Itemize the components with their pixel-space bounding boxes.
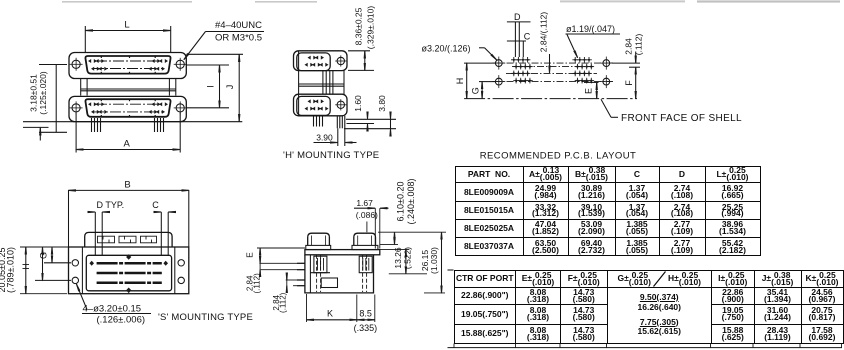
svg-text:8.36±0.25: 8.36±0.25	[354, 7, 364, 45]
svg-text:G: G	[471, 87, 481, 94]
svg-text:(.125±.020): (.125±.020)	[38, 71, 48, 115]
svg-text:ø3.20/(.126): ø3.20/(.126)	[422, 44, 471, 54]
svg-text:(.240±.008): (.240±.008)	[406, 179, 416, 225]
svg-text:G: G	[38, 252, 48, 259]
svg-text:4–ø3.20±0.15: 4–ø3.20±0.15	[83, 304, 142, 315]
svg-text:C: C	[152, 200, 159, 210]
svg-text:(.086): (.086)	[356, 210, 378, 220]
svg-text:'S' MOUNTING TYPE: 'S' MOUNTING TYPE	[158, 312, 253, 323]
svg-text:3.90: 3.90	[316, 133, 333, 143]
svg-text:H: H	[455, 78, 465, 85]
svg-text:L: L	[124, 20, 129, 31]
svg-text:(.335): (.335)	[354, 323, 378, 333]
svg-text:(.329±.010): (.329±.010)	[365, 6, 375, 50]
svg-text:I: I	[206, 85, 216, 88]
svg-text:(.112): (.112)	[633, 34, 643, 56]
svg-text:2.84/(.112): 2.84/(.112)	[539, 12, 549, 53]
svg-text:(.522): (.522)	[403, 247, 413, 269]
svg-text:3.80: 3.80	[377, 95, 387, 112]
svg-text:8.5: 8.5	[359, 308, 372, 318]
svg-text:(1.030): (1.030)	[429, 247, 439, 274]
svg-text:ø1.19/(.047): ø1.19/(.047)	[566, 24, 615, 34]
svg-text:J: J	[225, 85, 235, 90]
svg-text:C: C	[524, 32, 531, 42]
svg-text:(.126±.006): (.126±.006)	[97, 315, 146, 326]
svg-text:(.112): (.112)	[278, 292, 287, 313]
svg-text:(.789±.010): (.789±.010)	[6, 247, 16, 293]
svg-text:FRONT FACE OF SHELL: FRONT FACE OF SHELL	[621, 113, 742, 124]
svg-text:1.67: 1.67	[356, 198, 373, 208]
svg-text:#4–40UNC: #4–40UNC	[215, 20, 262, 31]
svg-text:D TYP.: D TYP.	[97, 200, 125, 210]
svg-text:E: E	[583, 88, 593, 94]
svg-text:A: A	[124, 139, 131, 150]
svg-text:1.60: 1.60	[353, 95, 363, 112]
svg-text:'H' MOUNTING TYPE: 'H' MOUNTING TYPE	[283, 150, 379, 161]
svg-text:6.10±0.20: 6.10±0.20	[396, 182, 406, 222]
svg-text:OR M3*0.5: OR M3*0.5	[215, 33, 262, 44]
svg-text:B: B	[124, 180, 130, 191]
svg-text:D: D	[514, 12, 521, 22]
svg-text:(.112): (.112)	[252, 273, 261, 294]
svg-text:RECOMMENDED P.C.B. LAYOUT: RECOMMENDED P.C.B. LAYOUT	[480, 151, 637, 162]
svg-text:E: E	[245, 252, 255, 258]
svg-text:2.84: 2.84	[624, 38, 634, 55]
svg-text:F: F	[624, 80, 634, 86]
svg-text:K: K	[327, 308, 333, 318]
